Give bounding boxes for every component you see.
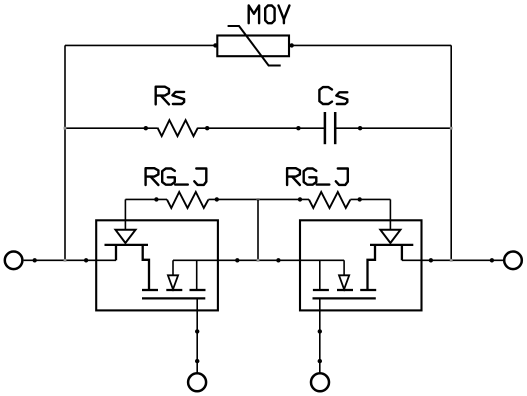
wire box edge to JFET leg [96, 259, 116, 261]
JFET left leg staircase to MOSFET drain [368, 245, 376, 290]
terminal left [5, 251, 23, 269]
wire junction (258,199) [257, 198, 260, 201]
diode D2 (right module gate clamp) [380, 230, 400, 243]
wire left terminal to left module [24, 259, 97, 261]
JFET channel bar (right module) [370, 244, 413, 246]
resistor RG_J (left) [167, 192, 208, 208]
pin-end dot (431,260) [429, 258, 433, 262]
wire right module to right terminal [422, 259, 504, 261]
label Rs [156, 87, 169, 105]
terminal right [504, 251, 522, 269]
pin-end dot (237,260) [235, 258, 239, 262]
wire between RG_J resistors [208, 198, 309, 200]
pin-end dot (197,331) [195, 329, 199, 333]
M1 body wire [172, 260, 174, 275]
wire junction (258,260) [257, 259, 260, 262]
label RG_J (left) [146, 168, 159, 185]
module box U2 (right cascode switch) [300, 220, 422, 310]
wire gate row right end [350, 198, 390, 200]
wire M1 gate lead to bottom terminal [196, 298, 198, 372]
pin-end dot (35,260) [33, 258, 37, 262]
wire snubber row left [65, 127, 158, 129]
M2 source bar [313, 289, 329, 291]
pin-end dot (320,331) [318, 329, 322, 333]
label MOV [249, 6, 259, 24]
pin-end dot (207,128) [205, 126, 209, 130]
terminal gate-left [188, 373, 206, 391]
wire junction (65,260) [64, 259, 67, 262]
M2 gate line [313, 297, 376, 299]
wire center node between modules [218, 259, 300, 261]
M1 drain bar [142, 289, 158, 291]
JFET channel bar (left module) [105, 244, 149, 246]
M2 body bar [337, 289, 353, 291]
label RG_J (right) [287, 168, 300, 185]
wire junction (451,128) [450, 127, 453, 130]
JFET right leg to main terminal [401, 245, 403, 260]
M1 body arrow [168, 275, 178, 289]
wire M2 gate lead to bottom terminal [319, 298, 321, 372]
pin-end dot (156,199) [154, 197, 158, 201]
label Cs [319, 87, 332, 104]
pin-end dot (292,45) [290, 43, 294, 47]
wire junction (451,260) [450, 259, 453, 262]
pin-end dot (86,260) [84, 258, 88, 262]
pin-end dot (492,260) [490, 258, 494, 262]
wire box left edge to M2 source [300, 259, 344, 261]
wire JFET leg to box right edge [402, 259, 422, 261]
pin-end dot (197,361) [195, 359, 199, 363]
wire gate row left end [125, 198, 167, 200]
wire top-left (left bus to MOV) [65, 44, 216, 46]
JFET right leg staircase to MOSFET drain [143, 245, 149, 290]
pin-end dot (320,361) [318, 359, 322, 363]
M2 drain bar [360, 289, 376, 291]
wire left bus (vertical) [64, 45, 66, 260]
wire top-right (MOV to right bus) [292, 44, 452, 46]
capacitor Cs [324, 112, 327, 144]
pin-end dot (300,199) [298, 197, 302, 201]
M1 gate line [142, 297, 205, 299]
wire junction (65,128) [64, 127, 67, 130]
wire center node drop [257, 199, 259, 260]
wire right bus (vertical) [450, 45, 452, 260]
M2 body wire [343, 260, 345, 275]
wire Cs to right bus [335, 127, 451, 129]
module box U1 (left cascode switch) [96, 220, 218, 310]
resistor Rs [158, 120, 198, 136]
wire Rs to Cs [198, 127, 325, 129]
wire M1 source to box right edge [173, 259, 218, 261]
M1 source bar [190, 289, 206, 291]
diode D1 (left module gate clamp) [116, 230, 136, 243]
M2 source stub [319, 260, 321, 290]
pin-end dot (146,128) [144, 126, 148, 130]
pin-end dot (360,199) [358, 197, 362, 201]
wire right gate drop to diode [389, 199, 391, 229]
wire left gate drop to diode [124, 199, 126, 229]
JFET left leg to main terminal [115, 245, 117, 260]
M1 body bar [166, 289, 182, 291]
pin-end dot (298,128) [296, 126, 300, 130]
pin-end dot (217,199) [215, 197, 219, 201]
pin-end dot (278,260) [276, 258, 280, 262]
varistor MOV [217, 36, 289, 57]
pin-end dot (360,128) [358, 126, 362, 130]
pin-end dot (215,45) [213, 43, 217, 47]
M1 source stub [196, 260, 198, 290]
resistor RG_J (right) [309, 192, 350, 208]
M2 body arrow [339, 275, 349, 289]
terminal gate-right [311, 373, 329, 391]
